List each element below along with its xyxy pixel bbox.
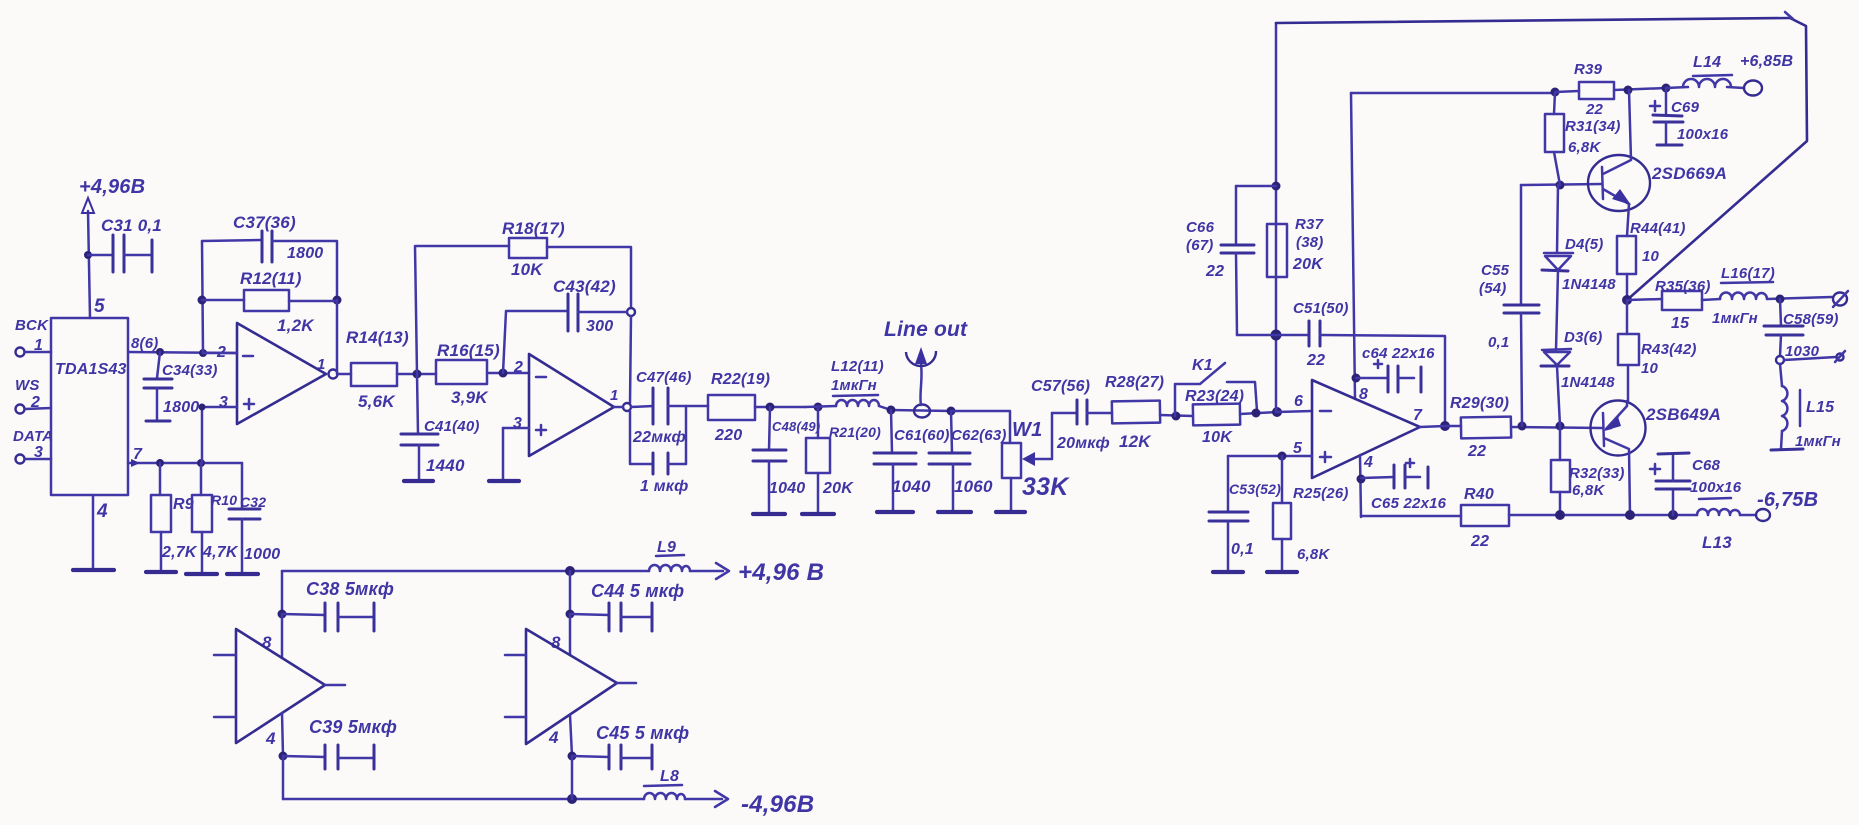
svg-text:1,2K: 1,2K — [277, 316, 315, 335]
svg-text:20мкф: 20мкф — [1056, 435, 1110, 452]
svg-text:C61(60): C61(60) — [894, 427, 950, 444]
svg-text:22: 22 — [1205, 263, 1224, 280]
svg-text:3: 3 — [219, 394, 228, 411]
svg-text:K1: K1 — [1192, 357, 1213, 374]
svg-text:C39 5мкф: C39 5мкф — [309, 717, 397, 737]
svg-text:R25(26): R25(26) — [1293, 485, 1349, 502]
svg-text:7: 7 — [1413, 407, 1423, 424]
svg-text:-6,75B: -6,75B — [1757, 489, 1818, 511]
svg-text:C37(36): C37(36) — [233, 213, 296, 232]
svg-text:1мкГн: 1мкГн — [831, 377, 877, 394]
svg-text:1 мкф: 1 мкф — [640, 478, 688, 495]
svg-text:10: 10 — [1642, 248, 1660, 265]
svg-text:5,6K: 5,6K — [358, 392, 396, 411]
svg-text:1800: 1800 — [163, 399, 199, 416]
svg-text:L8: L8 — [660, 768, 679, 785]
svg-text:1040: 1040 — [892, 477, 931, 496]
svg-text:C41(40): C41(40) — [424, 418, 480, 435]
svg-text:4,7K: 4,7K — [202, 544, 239, 561]
svg-text:220: 220 — [714, 427, 742, 444]
svg-text:C51(50): C51(50) — [1293, 300, 1349, 317]
svg-text:R35(36): R35(36) — [1655, 278, 1711, 295]
svg-text:C57(56): C57(56) — [1031, 378, 1090, 395]
svg-text:1440: 1440 — [426, 456, 465, 475]
svg-text:D3(6): D3(6) — [1564, 329, 1603, 346]
svg-text:C68: C68 — [1692, 457, 1721, 474]
svg-text:L16(17): L16(17) — [1721, 265, 1775, 282]
svg-text:6,8K: 6,8K — [1568, 139, 1601, 156]
svg-text:D4(5): D4(5) — [1565, 236, 1604, 253]
svg-text:R31(34): R31(34) — [1565, 118, 1621, 135]
svg-text:C45 5 мкф: C45 5 мкф — [596, 723, 689, 743]
svg-text:L12(11): L12(11) — [831, 358, 884, 375]
svg-text:8(6): 8(6) — [131, 335, 158, 352]
svg-text:L13: L13 — [1702, 533, 1732, 552]
svg-text:C32: C32 — [240, 494, 266, 510]
svg-text:C31 0,1: C31 0,1 — [101, 216, 162, 235]
svg-text:C66: C66 — [1186, 219, 1215, 236]
svg-text:R40: R40 — [1464, 486, 1494, 503]
svg-text:6,8K: 6,8K — [1297, 546, 1330, 563]
svg-text:22: 22 — [1585, 101, 1604, 118]
svg-text:DATA: DATA — [13, 428, 53, 445]
svg-text:-4,96B: -4,96B — [741, 791, 814, 818]
svg-text:20K: 20K — [1292, 256, 1324, 273]
svg-text:(54): (54) — [1479, 280, 1506, 297]
svg-text:C34(33): C34(33) — [162, 362, 218, 379]
svg-text:22мкф: 22мкф — [632, 429, 686, 446]
svg-text:R16(15): R16(15) — [437, 341, 500, 360]
svg-text:C48(49): C48(49) — [772, 419, 820, 434]
svg-text:22: 22 — [1306, 352, 1325, 369]
svg-text:R14(13): R14(13) — [346, 328, 409, 347]
svg-text:1: 1 — [317, 356, 326, 373]
svg-text:R29(30): R29(30) — [1450, 395, 1509, 412]
svg-text:300: 300 — [586, 318, 613, 335]
svg-text:0,1: 0,1 — [1488, 334, 1509, 351]
svg-text:C62(63): C62(63) — [951, 427, 1007, 444]
svg-text:R10: R10 — [211, 492, 237, 508]
svg-text:6,8K: 6,8K — [1572, 482, 1605, 499]
svg-text:2SB649A: 2SB649A — [1645, 405, 1721, 424]
svg-text:C65 22x16: C65 22x16 — [1371, 495, 1447, 512]
svg-text:20K: 20K — [822, 480, 854, 497]
svg-text:1: 1 — [610, 387, 619, 404]
svg-text:1000: 1000 — [244, 546, 280, 563]
svg-text:4: 4 — [265, 729, 276, 748]
svg-text:2: 2 — [513, 359, 523, 376]
svg-text:100x16: 100x16 — [1690, 479, 1742, 496]
svg-text:C38 5мкф: C38 5мкф — [306, 579, 394, 599]
svg-text:1800: 1800 — [287, 245, 323, 262]
svg-text:C43(42): C43(42) — [553, 277, 616, 296]
svg-text:R23(24): R23(24) — [1185, 388, 1244, 405]
svg-text:1060: 1060 — [954, 477, 993, 496]
svg-text:3: 3 — [513, 415, 522, 432]
svg-text:C69: C69 — [1671, 99, 1700, 116]
svg-text:R44(41): R44(41) — [1630, 220, 1686, 237]
svg-text:W1: W1 — [1012, 419, 1042, 441]
svg-text:Line out: Line out — [884, 318, 968, 341]
svg-text:R22(19): R22(19) — [711, 371, 770, 388]
svg-text:33K: 33K — [1022, 473, 1070, 501]
svg-text:6: 6 — [1294, 393, 1303, 410]
svg-text:10K: 10K — [511, 260, 544, 279]
svg-text:+4,96 B: +4,96 B — [738, 559, 824, 586]
svg-text:R39: R39 — [1574, 61, 1603, 78]
svg-text:c64 22x16: c64 22x16 — [1362, 345, 1435, 362]
svg-text:L15: L15 — [1806, 399, 1835, 416]
svg-text:4: 4 — [96, 501, 108, 522]
svg-text:R21(20): R21(20) — [829, 424, 881, 440]
svg-text:R18(17): R18(17) — [502, 219, 565, 238]
svg-text:R37: R37 — [1295, 216, 1324, 233]
svg-text:7: 7 — [133, 446, 143, 463]
svg-text:WS: WS — [15, 377, 40, 394]
svg-text:1040: 1040 — [769, 480, 805, 497]
svg-text:1N4148: 1N4148 — [1562, 276, 1616, 293]
svg-text:R9: R9 — [173, 496, 194, 513]
svg-text:C47(46): C47(46) — [636, 369, 692, 386]
svg-text:8: 8 — [1359, 386, 1368, 403]
svg-text:+4,96B: +4,96B — [79, 176, 145, 198]
svg-text:10: 10 — [1641, 360, 1659, 377]
svg-text:2SD669A: 2SD669A — [1651, 164, 1727, 183]
svg-text:BCK: BCK — [15, 317, 49, 334]
svg-text:22: 22 — [1470, 533, 1489, 550]
svg-text:5: 5 — [94, 296, 105, 317]
svg-text:10K: 10K — [1202, 429, 1233, 446]
svg-text:1мкГн: 1мкГн — [1795, 433, 1841, 450]
svg-text:12K: 12K — [1119, 432, 1152, 451]
svg-text:+6,85B: +6,85B — [1740, 53, 1793, 70]
svg-text:R28(27): R28(27) — [1105, 374, 1164, 391]
svg-text:(38): (38) — [1296, 234, 1323, 251]
svg-text:L14: L14 — [1693, 54, 1721, 71]
svg-text:C53(52): C53(52) — [1229, 481, 1281, 497]
svg-text:C55: C55 — [1481, 262, 1510, 279]
svg-text:R12(11): R12(11) — [240, 269, 302, 288]
svg-text:1мкГн: 1мкГн — [1712, 310, 1758, 327]
svg-text:3,9K: 3,9K — [451, 388, 489, 407]
svg-text:0,1: 0,1 — [1231, 541, 1254, 558]
svg-text:L9: L9 — [657, 539, 676, 556]
svg-text:C58(59): C58(59) — [1783, 311, 1839, 328]
svg-text:22: 22 — [1467, 443, 1486, 460]
svg-text:1N4148: 1N4148 — [1561, 374, 1615, 391]
svg-text:2,7K: 2,7K — [161, 544, 198, 561]
svg-text:R43(42): R43(42) — [1641, 341, 1697, 358]
svg-text:TDA1S43: TDA1S43 — [55, 361, 127, 378]
svg-text:15: 15 — [1671, 315, 1690, 332]
svg-text:C44 5 мкф: C44 5 мкф — [591, 581, 684, 601]
svg-text:100x16: 100x16 — [1677, 126, 1729, 143]
svg-text:(67): (67) — [1186, 237, 1213, 254]
svg-text:5: 5 — [1293, 440, 1303, 457]
svg-text:R32(33): R32(33) — [1569, 465, 1625, 482]
svg-text:4: 4 — [548, 728, 559, 747]
svg-text:4: 4 — [1363, 454, 1373, 471]
